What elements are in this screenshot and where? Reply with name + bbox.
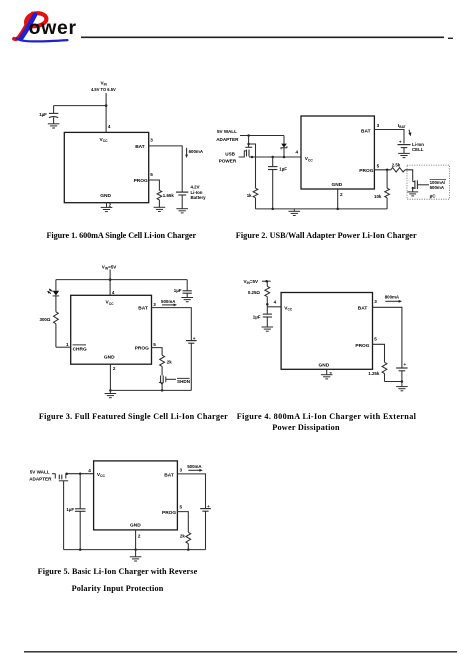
- label Li-Ion CELL: [412, 142, 424, 152]
- label 1uF: [253, 314, 261, 319]
- ground pin2: [321, 375, 333, 379]
- label 5V WALL ADAPTER: [216, 129, 239, 142]
- logo blue underline: [17, 38, 68, 41]
- node junction diode: [283, 156, 286, 159]
- label 2.5k: [392, 163, 401, 168]
- caption figure 3: [39, 412, 228, 421]
- svg-text:+: +: [193, 336, 196, 341]
- wire PROG to R 2k: [177, 512, 188, 533]
- label uC: [430, 194, 437, 199]
- svg-text:5: 5: [150, 172, 153, 177]
- logo blue slash: [21, 15, 35, 39]
- label battery: [191, 185, 207, 200]
- ground under C: [262, 327, 274, 331]
- svg-text:3: 3: [180, 468, 183, 473]
- svg-text:BAT: BAT: [164, 472, 174, 478]
- svg-text:BAT: BAT: [361, 128, 371, 134]
- label 1.65k: [163, 193, 175, 198]
- svg-text:ADAPTER: ADAPTER: [216, 137, 239, 142]
- ground under battery: [176, 209, 188, 213]
- svg-text:3: 3: [377, 123, 380, 128]
- pin 2 stub: [106, 203, 108, 208]
- svg-text:PROG: PROG: [359, 168, 373, 174]
- caption figure 5 line 2: [72, 584, 164, 593]
- label VCC: [305, 156, 314, 162]
- svg-text:3: 3: [374, 299, 377, 304]
- wire adapter to diode: [240, 135, 284, 137]
- pin 2 stub: [109, 364, 111, 390]
- wire to IC pin4: [267, 306, 281, 308]
- transistor Q1 reverse FET: [55, 474, 68, 550]
- svg-text:PROG: PROG: [355, 343, 369, 349]
- svg-text:0.25Ω: 0.25Ω: [248, 290, 261, 295]
- wire adapter to Q1: [52, 473, 55, 475]
- label GND: [319, 362, 330, 368]
- label GND: [104, 355, 115, 361]
- label plus cell: [399, 140, 402, 145]
- svg-text:CHRG: CHRG: [73, 346, 87, 352]
- svg-text:10k: 10k: [374, 194, 382, 199]
- svg-text:500mA: 500mA: [161, 299, 176, 304]
- label 2k: [167, 359, 172, 364]
- label 2k: [180, 534, 185, 539]
- top rail: [56, 279, 187, 281]
- pin 2 stub: [326, 369, 328, 374]
- node junction cap rail: [79, 548, 82, 551]
- ground under C1: [48, 124, 60, 128]
- wire VIN vertical: [109, 270, 111, 296]
- resistor R 1.25k: [382, 362, 387, 381]
- svg-text:4: 4: [274, 299, 277, 304]
- label plus battery: [207, 504, 210, 509]
- ground under C: [181, 298, 193, 302]
- logo red P stem: [14, 14, 33, 40]
- bottom rail: [256, 208, 388, 210]
- overline SHDN: [177, 377, 190, 379]
- wire BAT to battery: [149, 146, 183, 192]
- label BAT pin3: [361, 123, 380, 135]
- node junction cap: [271, 156, 274, 159]
- node junction gnd: [336, 208, 339, 211]
- svg-text:BAT: BAT: [358, 306, 368, 312]
- svg-text:VCC: VCC: [284, 305, 293, 311]
- label PROG pin5: [359, 163, 379, 173]
- label USB POWER: [219, 151, 237, 163]
- wire down to Q1: [248, 136, 250, 148]
- svg-text:600mA: 600mA: [189, 149, 204, 154]
- svg-text:VCC: VCC: [97, 472, 106, 478]
- label BAT pin3: [358, 299, 378, 312]
- svg-text:BAT: BAT: [135, 144, 145, 150]
- label CHRG overline: [73, 346, 87, 352]
- pin 4 label: [296, 150, 299, 155]
- wire BAT to battery: [177, 474, 205, 509]
- caption figure 4 line 1: [237, 412, 417, 421]
- bottom rail: [110, 389, 191, 391]
- svg-text:SHDN: SHDN: [177, 379, 191, 384]
- label 600mA: [189, 149, 204, 154]
- wire R to uC box: [405, 170, 413, 181]
- wire PROG to R 2k: [152, 348, 163, 356]
- label 10k: [374, 194, 382, 199]
- uC dashed box: [407, 165, 449, 199]
- label 1uF: [174, 288, 182, 293]
- wire Q1 to IC pin4: [66, 473, 94, 475]
- pin 2 label: [329, 371, 332, 376]
- svg-text:GND: GND: [332, 182, 343, 188]
- svg-text:800mA: 800mA: [385, 295, 400, 300]
- label 1uF: [279, 166, 287, 171]
- svg-text:VIN=5V: VIN=5V: [102, 264, 118, 270]
- svg-text:500mA: 500mA: [430, 185, 445, 190]
- label 300ohm: [40, 317, 51, 322]
- wire to CHRG pin1: [56, 346, 71, 348]
- wire gate branch to R 1k: [249, 144, 256, 188]
- label plus battery: [193, 336, 196, 341]
- svg-text:VIN: VIN: [101, 81, 108, 87]
- label GND: [100, 193, 111, 199]
- label PROG pin5: [162, 505, 183, 516]
- node junction gnd: [401, 380, 404, 383]
- pin 2 label: [138, 534, 141, 539]
- node junction prog: [386, 169, 389, 172]
- pin 2 stub: [337, 189, 339, 209]
- current arrow IBAT: [408, 130, 411, 137]
- logo text ower: [29, 17, 77, 39]
- svg-text:PROG: PROG: [162, 510, 176, 516]
- svg-text:4: 4: [112, 290, 115, 295]
- label 0.25ohm: [248, 290, 261, 295]
- battery Li-Ion cell: [398, 145, 411, 154]
- svg-text:PROG: PROG: [135, 346, 149, 352]
- wire USB rail to IC pin4: [249, 156, 301, 158]
- IC U1: [94, 461, 178, 530]
- pin 2 label: [340, 192, 343, 197]
- svg-text:POWER: POWER: [219, 158, 237, 163]
- svg-text:GND: GND: [130, 523, 141, 529]
- svg-text:5: 5: [374, 336, 377, 341]
- svg-text:PROG: PROG: [134, 178, 148, 184]
- node junction pin2 rail: [109, 389, 112, 392]
- svg-text:2: 2: [109, 203, 112, 208]
- svg-text:+: +: [207, 504, 210, 509]
- IC U1: [64, 132, 148, 202]
- wire PROG to R: [373, 344, 385, 362]
- svg-text:ADAPTER: ADAPTER: [29, 477, 52, 482]
- pin 1 label: [66, 342, 69, 347]
- logo red P bowl: [26, 13, 46, 26]
- ground pin2: [101, 207, 113, 211]
- bottom rail: [64, 549, 206, 551]
- svg-text:5: 5: [180, 505, 183, 510]
- wire PROG to R1: [149, 180, 160, 190]
- diode D1 schottky: [281, 136, 287, 158]
- overline 100mA: [430, 179, 446, 181]
- ground under cell: [398, 153, 410, 157]
- svg-text:ower: ower: [29, 17, 77, 39]
- battery B1: [396, 368, 407, 382]
- wire VIN stub: [262, 281, 271, 286]
- svg-text:1.25k: 1.25k: [368, 371, 380, 376]
- node junction adapter: [247, 134, 250, 137]
- svg-text:2: 2: [113, 366, 116, 371]
- svg-text:2: 2: [138, 534, 141, 539]
- caption figure 4 line 2: [272, 423, 340, 432]
- label 500mA: [187, 464, 202, 469]
- label 1uF: [66, 507, 74, 512]
- label IBAT: [398, 123, 406, 129]
- svg-text:3: 3: [153, 302, 156, 307]
- current arrow 500mA: [188, 469, 203, 472]
- svg-text:VCC: VCC: [100, 137, 109, 143]
- current arrow 600mA: [185, 148, 188, 158]
- label BAT pin3: [135, 138, 153, 151]
- svg-text:4: 4: [296, 150, 299, 155]
- ground on rail: [289, 209, 301, 216]
- ground pin2: [105, 390, 117, 397]
- resistor R 300ohm: [54, 312, 59, 347]
- svg-text:VCC: VCC: [106, 300, 115, 306]
- current arrow 800mA: [385, 300, 402, 303]
- svg-text:1µF: 1µF: [253, 314, 261, 319]
- resistor R 1k: [253, 188, 258, 209]
- svg-text:VCC: VCC: [305, 156, 314, 162]
- ground pin2: [130, 550, 142, 561]
- resistor R 0.25ohm: [265, 286, 270, 314]
- transistor Q2 uC FET: [412, 180, 429, 192]
- caption figure 5 line 1: [38, 567, 198, 576]
- footer rule: [24, 651, 457, 653]
- svg-text:1µF: 1µF: [174, 288, 182, 293]
- transistor Q1 USB PFET: [239, 147, 254, 158]
- node VIN label: [102, 264, 118, 270]
- svg-text:1µF: 1µF: [279, 166, 287, 171]
- pin 4 label: [88, 468, 91, 473]
- label BAT pin3: [164, 468, 182, 479]
- capacitor C 1uF: [268, 157, 277, 209]
- label GND: [332, 182, 343, 188]
- svg-text:+: +: [399, 140, 402, 145]
- svg-text:4: 4: [108, 124, 111, 129]
- capacitor C 1uF: [75, 474, 86, 550]
- label plus battery: [404, 362, 407, 367]
- label 500mA: [161, 299, 176, 304]
- label 800mA: [385, 295, 400, 300]
- node junction VIN: [105, 104, 108, 107]
- node junction pin2 rail: [134, 548, 137, 551]
- wire rail to LED: [55, 280, 57, 291]
- node VIN label: [244, 279, 260, 285]
- node junction shdn rail: [161, 389, 164, 392]
- svg-text:4.5V TO 6.5V: 4.5V TO 6.5V: [91, 87, 116, 92]
- label 1.25k: [368, 371, 380, 376]
- svg-text:2.5k: 2.5k: [392, 163, 401, 168]
- node junction cap bottom: [271, 208, 274, 211]
- svg-text:1k: 1k: [247, 193, 252, 198]
- caption figure 2: [236, 231, 417, 240]
- ground battery: [396, 382, 408, 391]
- LED D1: [47, 289, 59, 312]
- svg-text:5: 5: [153, 342, 156, 347]
- header rule: [81, 37, 453, 38]
- svg-text:GND: GND: [100, 193, 111, 199]
- svg-text:1µF: 1µF: [39, 112, 47, 117]
- battery B1: [176, 192, 188, 209]
- wire R to battery gnd: [385, 381, 402, 383]
- label PROG pin5: [135, 342, 157, 352]
- label 100mA/500mA: [430, 180, 446, 190]
- svg-text:BAT: BAT: [138, 306, 148, 312]
- pin 2 stub: [135, 530, 137, 550]
- svg-text:Battery: Battery: [191, 195, 207, 200]
- svg-text:VIN=5V: VIN=5V: [244, 279, 260, 285]
- node junction cap: [266, 303, 269, 306]
- pin 2 label: [109, 203, 112, 208]
- label PROG pin5: [134, 172, 154, 184]
- pin 4 label: [112, 290, 115, 295]
- svg-text:+: +: [404, 362, 407, 367]
- svg-text:2k: 2k: [180, 534, 185, 539]
- svg-text:1: 1: [66, 342, 69, 347]
- label VCC: [106, 300, 115, 306]
- capacitor C 1uF top right: [183, 280, 192, 298]
- node junction VIN: [109, 278, 112, 281]
- wire PROG: [374, 169, 390, 171]
- wire BAT to battery: [373, 307, 402, 368]
- node junction gate branch: [247, 143, 250, 146]
- current arrow 500mA: [162, 304, 177, 307]
- svg-text:IBAT: IBAT: [398, 123, 406, 129]
- label VCC: [284, 305, 293, 311]
- overline CHRG: [73, 344, 86, 346]
- resistor R1 1.65k: [157, 190, 162, 207]
- resistor R 2.5k: [391, 168, 405, 172]
- label VCC: [97, 472, 106, 478]
- svg-text:500mA: 500mA: [187, 464, 202, 469]
- label GND: [130, 523, 141, 529]
- pin 4 label: [274, 299, 277, 304]
- svg-text:100mA/: 100mA/: [430, 180, 446, 185]
- svg-text:GND: GND: [104, 355, 115, 361]
- svg-text:2: 2: [340, 192, 343, 197]
- label VCC: [100, 137, 109, 143]
- svg-text:1.65k: 1.65k: [163, 193, 175, 198]
- svg-text:1µF: 1µF: [66, 507, 74, 512]
- pin 2 label: [113, 366, 116, 371]
- node VIN label: [91, 81, 116, 92]
- svg-text:5V WALL: 5V WALL: [30, 470, 50, 475]
- svg-text:4: 4: [88, 468, 91, 473]
- ground in uC box: [407, 192, 418, 196]
- svg-text:CELL: CELL: [412, 147, 424, 152]
- svg-text:5V WALL: 5V WALL: [217, 129, 237, 134]
- IC U1: [301, 116, 374, 189]
- svg-text:GND: GND: [319, 362, 330, 368]
- label 1uF: [39, 112, 47, 117]
- label 1k: [247, 193, 252, 198]
- svg-text:5: 5: [377, 163, 380, 168]
- resistor R 2k: [186, 532, 191, 549]
- label SHDN overline: [177, 379, 191, 384]
- pin 4 label: [108, 124, 111, 129]
- svg-text:300Ω: 300Ω: [40, 317, 51, 322]
- transistor Q1 SHDN FET: [159, 375, 176, 390]
- wire to C1: [54, 106, 107, 114]
- IC U1: [71, 295, 152, 364]
- IC U1: [281, 293, 372, 370]
- label BAT pin3: [138, 302, 156, 312]
- node junction Q1: [65, 472, 68, 475]
- node junction cap: [79, 472, 82, 475]
- resistor R 2k: [160, 355, 165, 375]
- wire VIN vertical: [105, 93, 107, 132]
- svg-text:3: 3: [150, 138, 153, 143]
- capacitor C 1uF: [263, 314, 272, 327]
- label PROG pin5: [355, 336, 377, 349]
- battery B1: [200, 509, 211, 550]
- caption figure 1: [47, 231, 197, 240]
- battery B1: [186, 341, 197, 391]
- svg-text:USB: USB: [225, 151, 235, 156]
- node junction VIN: [265, 280, 268, 283]
- resistor R 10k: [385, 170, 390, 209]
- label 5V WALL ADAPTER: [29, 470, 52, 482]
- node junction 2k rail: [187, 548, 190, 551]
- svg-text:2k: 2k: [167, 359, 172, 364]
- capacitor C1 1uF: [49, 113, 58, 123]
- svg-text:µC: µC: [430, 194, 437, 199]
- wire BAT to battery: [152, 308, 192, 341]
- ground under R1: [154, 207, 166, 211]
- wire BAT to cell: [374, 130, 404, 144]
